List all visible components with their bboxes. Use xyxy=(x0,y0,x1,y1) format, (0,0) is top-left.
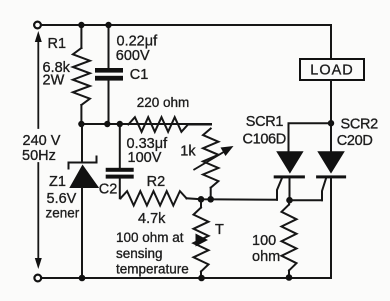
resistor R2 xyxy=(121,191,187,205)
capacitor C2 xyxy=(119,124,121,168)
node thermistor / gate rail xyxy=(198,196,205,203)
svg-text:220 ohm: 220 ohm xyxy=(137,95,190,110)
node middle rail / C1 xyxy=(104,121,110,127)
svg-text:100V: 100V xyxy=(128,150,162,166)
svg-text:R2: R2 xyxy=(147,174,166,190)
wire SCR1 cathode to SCR2 gate xyxy=(290,199,323,201)
SCR1 xyxy=(276,151,303,173)
240V measure arrow up segment xyxy=(37,37,39,128)
svg-text:zener: zener xyxy=(46,206,80,221)
node SCR2 anode junction xyxy=(328,120,334,126)
svg-text:100 ohm at: 100 ohm at xyxy=(116,230,184,245)
node pot / gate rail xyxy=(207,196,214,203)
terminal top-left xyxy=(34,22,41,29)
node bottom rail / zener xyxy=(79,275,86,282)
capacitor C1 xyxy=(108,25,110,68)
wire 220 ohm to pot xyxy=(188,124,211,126)
svg-text:SCR2: SCR2 xyxy=(341,117,379,133)
240V measure arrow down segment xyxy=(37,163,39,261)
SCR2 xyxy=(317,151,345,173)
svg-text:C1: C1 xyxy=(130,67,149,83)
svg-text:C106D: C106D xyxy=(243,132,286,148)
svg-text:100: 100 xyxy=(252,233,276,249)
SCR1 gate lead xyxy=(277,178,282,199)
resistor 100 ohm xyxy=(288,200,290,204)
wire right rail to LOAD xyxy=(330,25,332,59)
svg-text:temperature: temperature xyxy=(116,262,189,277)
wire LOAD to SCR2 anode xyxy=(330,80,332,152)
terminal bottom-left xyxy=(34,275,41,282)
potentiometer 1k xyxy=(203,129,218,188)
svg-text:SCR1: SCR1 xyxy=(246,114,284,130)
node middle rail / R1-zener xyxy=(78,121,84,127)
zener Z1 xyxy=(81,124,83,163)
svg-text:1k: 1k xyxy=(180,144,196,160)
svg-text:C20D: C20D xyxy=(337,133,373,149)
svg-text:2W: 2W xyxy=(43,73,65,89)
node top rail / R1 xyxy=(78,22,84,28)
node bottom rail / 100 ohm xyxy=(286,274,293,281)
svg-text:50Hz: 50Hz xyxy=(22,148,56,164)
wire R2 to gate rail xyxy=(187,198,278,200)
svg-text:600V: 600V xyxy=(116,48,150,64)
wire SCR1 anode branch xyxy=(289,123,332,151)
wire top rail xyxy=(41,24,331,26)
wire middle rail xyxy=(81,123,211,125)
node bottom rail / thermistor xyxy=(198,275,205,282)
resistor 220 ohm xyxy=(128,117,188,132)
svg-text:sensing: sensing xyxy=(116,246,163,261)
svg-text:C2: C2 xyxy=(99,182,118,198)
svg-text:240 V: 240 V xyxy=(23,133,61,149)
svg-text:T: T xyxy=(215,222,224,238)
LOAD box xyxy=(300,59,364,80)
node middle rail / C2 xyxy=(117,121,123,127)
svg-text:R1: R1 xyxy=(48,36,67,52)
svg-text:Z1: Z1 xyxy=(49,174,66,190)
svg-text:LOAD: LOAD xyxy=(310,63,354,79)
SCR2 gate lead xyxy=(322,178,326,200)
svg-text:4.7k: 4.7k xyxy=(138,211,166,227)
svg-text:ohm: ohm xyxy=(252,249,280,265)
pot wiper arrow xyxy=(194,150,227,170)
node SCR1 cathode junction xyxy=(286,197,293,204)
node top rail / C1 xyxy=(105,22,111,28)
thermistor T xyxy=(200,199,202,207)
wire bottom rail xyxy=(42,277,332,279)
resistor R1 xyxy=(80,25,82,48)
